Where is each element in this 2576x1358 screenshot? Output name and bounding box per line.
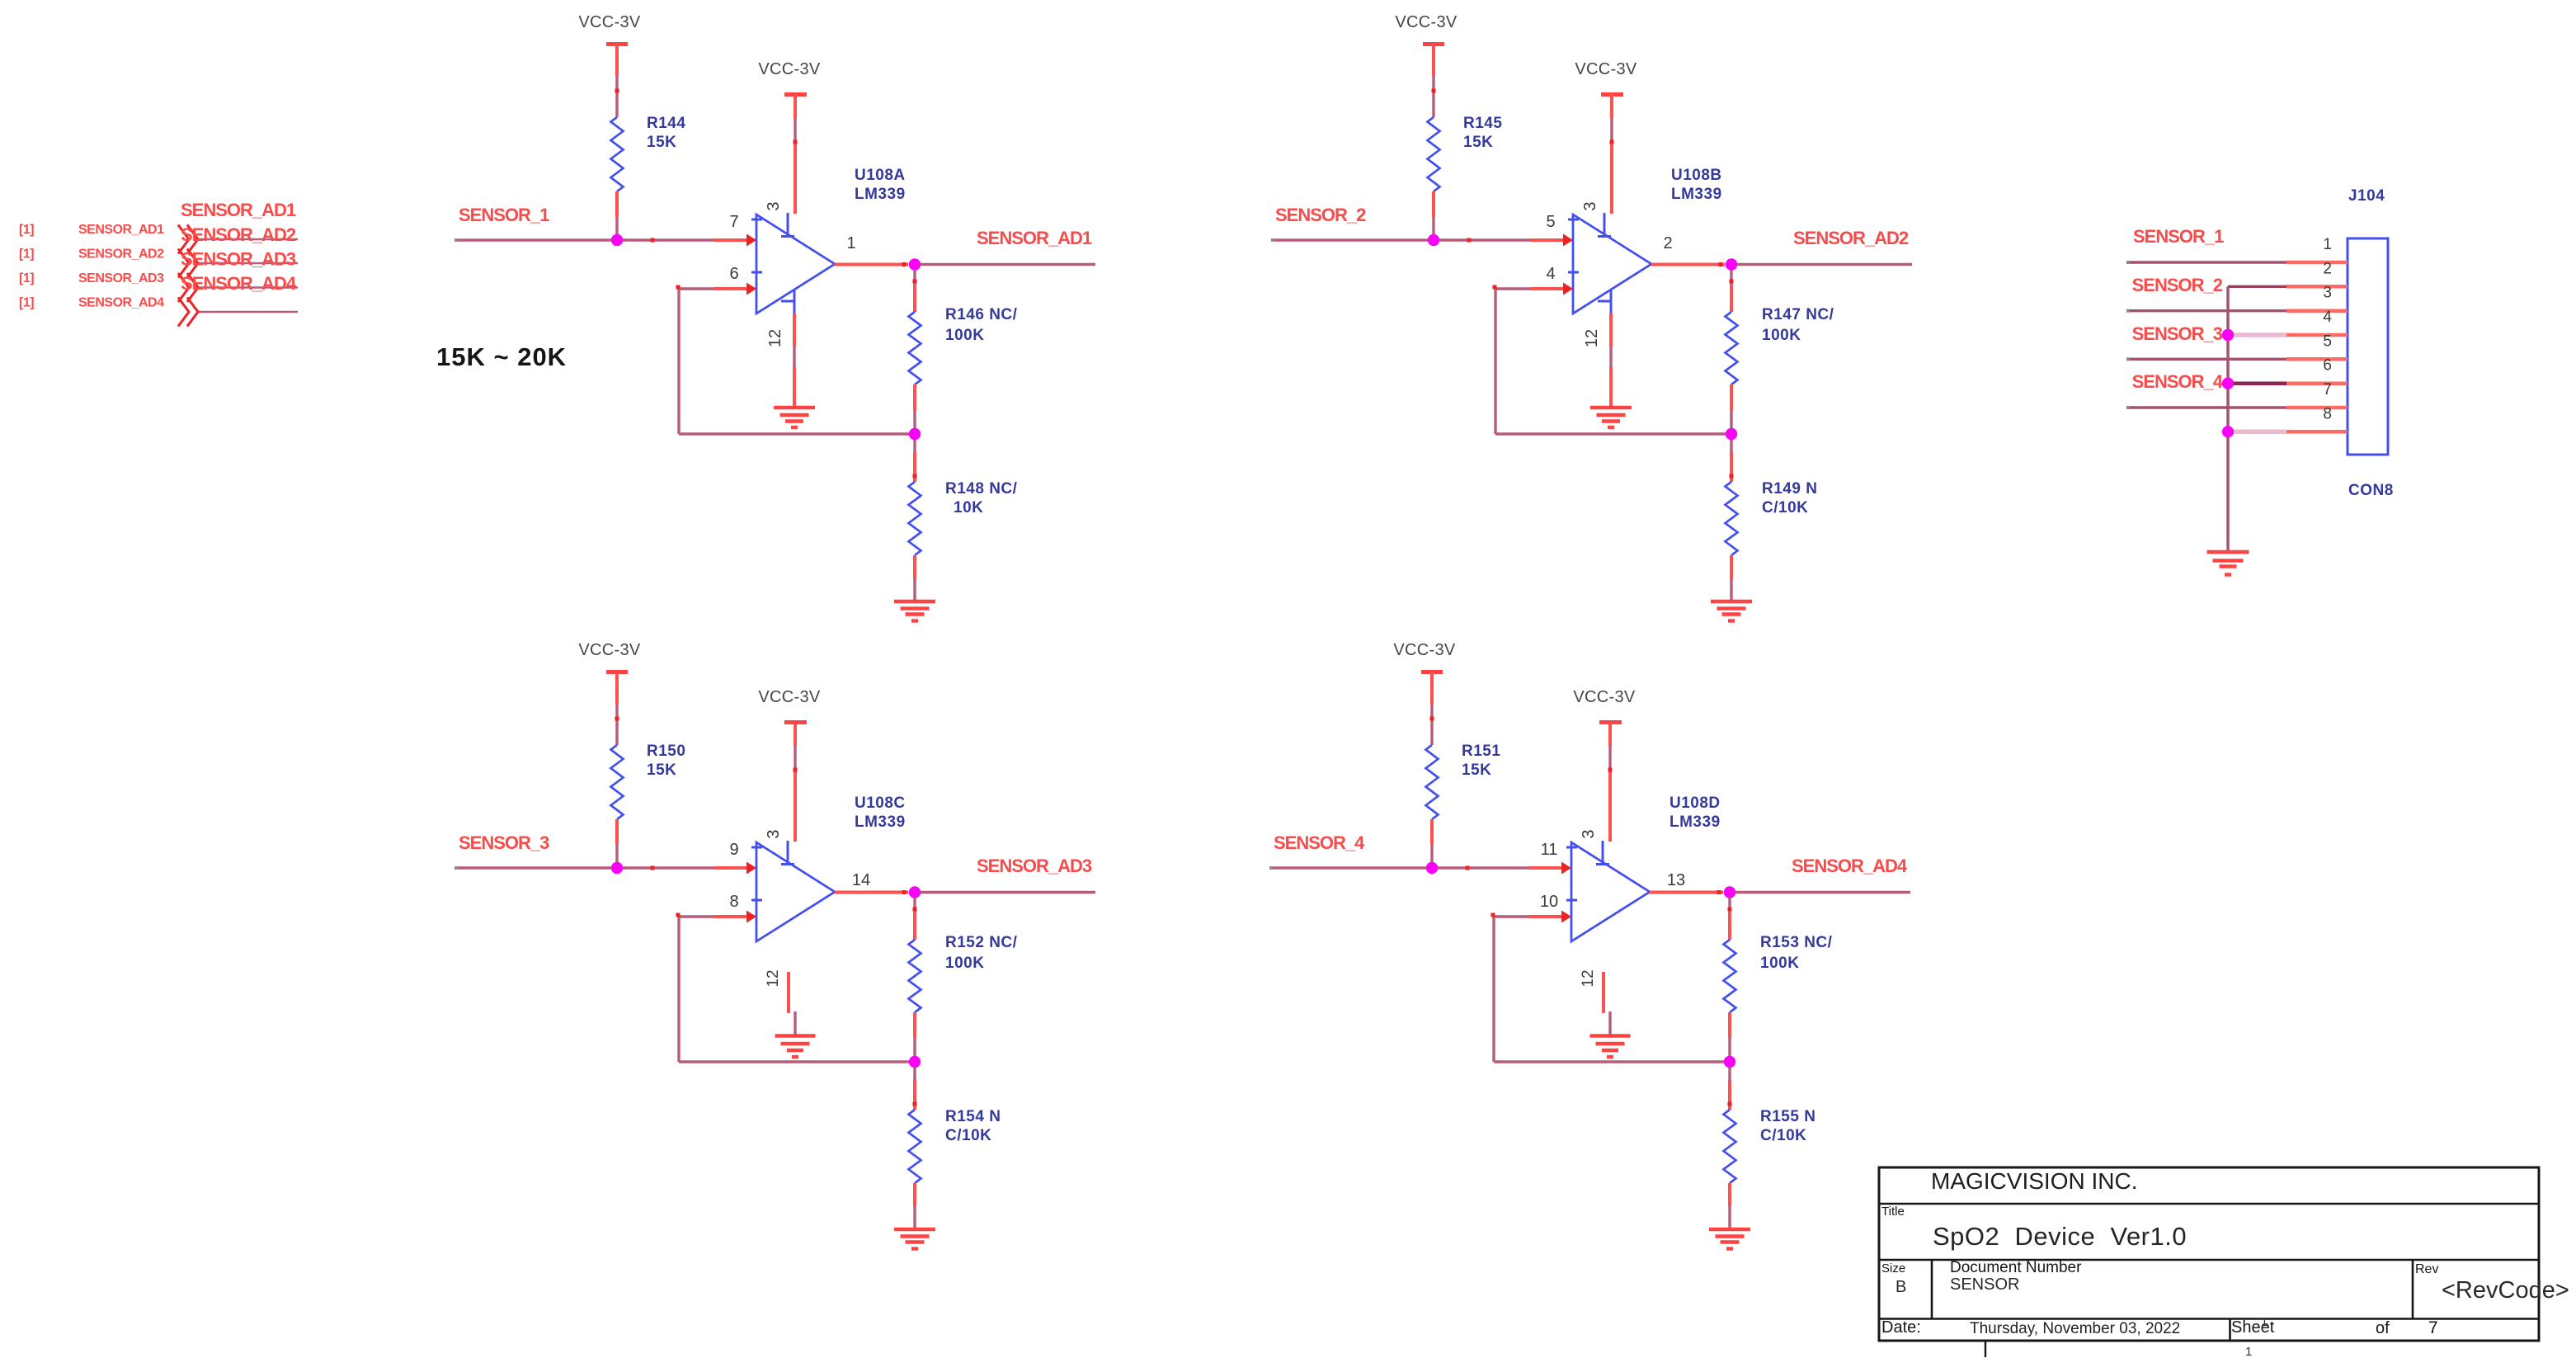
svg-text:VCC-3V: VCC-3V [578, 641, 641, 659]
svg-text:10K: 10K [954, 499, 983, 516]
wire R147 to node [1730, 384, 1733, 410]
wire output to R147 [1730, 270, 1732, 285]
wire output pin 14 [835, 891, 908, 894]
svg-text:100K: 100K [945, 327, 984, 344]
title block frame [1879, 1167, 2539, 1341]
off-page connector chevron 1 [178, 225, 198, 254]
wire node to R148 [913, 440, 916, 452]
node input junction [611, 862, 623, 874]
svg-text:4: 4 [1546, 265, 1555, 283]
ground (pin 12) [775, 1034, 816, 1037]
node feedback junction [909, 428, 921, 440]
resistor R152 [909, 940, 921, 1012]
svg-text:5: 5 [2323, 332, 2332, 350]
sheet number mark [1985, 1341, 1986, 1357]
wire to J104 pin 1 [2128, 261, 2286, 263]
wire output net [921, 891, 1095, 894]
svg-text:15K: 15K [1462, 762, 1491, 779]
wire to J104 pin 7 [2128, 406, 2286, 408]
wire pin 3 to VCC [1608, 723, 1612, 747]
wire R145 to input node [1432, 191, 1435, 217]
svg-text:3: 3 [1580, 829, 1598, 838]
svg-text:SENSOR_3: SENSOR_3 [2132, 323, 2223, 344]
node input junction [1426, 862, 1438, 874]
svg-text:VCC-3V: VCC-3V [1393, 641, 1456, 659]
svg-text:VCC-3V: VCC-3V [578, 13, 641, 31]
svg-text:6: 6 [2323, 357, 2332, 375]
wire feedback [714, 915, 746, 918]
resistor R147 [1726, 312, 1738, 384]
svg-text:R149 N: R149 N [1762, 480, 1817, 497]
pin 3 stub [1602, 841, 1604, 864]
ground (divider) [894, 1228, 935, 1231]
wire output to R146 [913, 270, 916, 285]
svg-text:Thursday, November 03, 2022: Thursday, November 03, 2022 [1970, 1320, 2180, 1337]
node junction pin 4 [2222, 329, 2234, 341]
svg-text:SENSOR_2: SENSOR_2 [1275, 205, 1366, 225]
wire R144 to input node [615, 191, 619, 217]
wire R151 to input node [1430, 819, 1434, 845]
comparator circuit U108A [454, 13, 1095, 621]
svg-text:U108C: U108C [855, 795, 906, 812]
wire output net [921, 263, 1095, 266]
wire output net [1735, 891, 1910, 894]
svg-text:U108D: U108D [1669, 795, 1721, 812]
svg-text:U108A: U108A [855, 167, 906, 184]
svg-text:SENSOR_AD2: SENSOR_AD2 [78, 248, 164, 262]
svg-text:3: 3 [765, 201, 783, 210]
svg-text:R152 NC/: R152 NC/ [945, 934, 1018, 951]
comparator circuit U108B [1271, 13, 1912, 621]
wire to J104 pin 5 [2128, 358, 2286, 361]
svg-text:J104: J104 [2348, 187, 2385, 205]
svg-text:2: 2 [1663, 234, 1672, 252]
off-page connector chevron 2 [178, 249, 198, 278]
svg-text:1: 1 [846, 234, 855, 252]
svg-text:VCC-3V: VCC-3V [1573, 688, 1636, 706]
wire R153 to node [1728, 1012, 1731, 1038]
svg-text:R151: R151 [1462, 743, 1500, 760]
wire pin 3 to VCC [794, 95, 797, 119]
resistor R144 [611, 117, 624, 191]
wire SENSOR_1 input [457, 238, 714, 241]
resistor R145 [1428, 117, 1440, 191]
resistor R154 [909, 1110, 921, 1183]
svg-text:SENSOR_AD1: SENSOR_AD1 [78, 223, 164, 237]
svg-text:SENSOR_AD4: SENSOR_AD4 [78, 296, 164, 310]
svg-text:VCC-3V: VCC-3V [758, 688, 821, 706]
pin 12 stub [1610, 290, 1613, 314]
svg-text:100K: 100K [1760, 955, 1799, 972]
svg-text:12: 12 [1580, 969, 1597, 987]
svg-text:[1]: [1] [19, 271, 34, 285]
svg-text:Rev: Rev [2415, 1262, 2438, 1276]
svg-text:U108B: U108B [1671, 167, 1722, 184]
ground (pin 12) [1590, 1034, 1631, 1037]
svg-text:15K ~ 20K: 15K ~ 20K [436, 342, 567, 371]
svg-text:7: 7 [2428, 1318, 2438, 1337]
wire R155 to ground [1728, 1183, 1731, 1206]
wire pin 12 to ground [1608, 1011, 1611, 1036]
svg-text:SENSOR_AD1: SENSOR_AD1 [977, 228, 1092, 248]
op-amp U108D LM339 [1571, 842, 1650, 941]
wire SENSOR_2 to J104 pin 2 [2228, 285, 2286, 288]
svg-text:B: B [1896, 1278, 1906, 1296]
svg-text:R153 NC/: R153 NC/ [1760, 934, 1833, 951]
wire R146 to node [913, 384, 916, 410]
svg-text:C/10K: C/10K [945, 1127, 991, 1144]
wire ground bus (J104) [2226, 286, 2229, 550]
wire pin 12 to ground [1609, 314, 1613, 347]
svg-text:<RevCode>: <RevCode> [2442, 1277, 2569, 1304]
wire pin 3 to VCC [1610, 95, 1613, 119]
pin 3 stub [787, 841, 789, 864]
svg-text:R148 NC/: R148 NC/ [945, 480, 1018, 497]
svg-text:Sheet: Sheet [2231, 1318, 2275, 1337]
svg-text:R147 NC/: R147 NC/ [1762, 306, 1834, 323]
wire output to R152 [913, 898, 916, 912]
svg-text:CON8: CON8 [2348, 482, 2394, 499]
node junction pin 6 [2222, 378, 2234, 389]
resistor R153 [1724, 940, 1736, 1012]
svg-text:R146 NC/: R146 NC/ [945, 306, 1018, 323]
wire VCC to R150 [615, 672, 619, 705]
svg-text:12: 12 [765, 969, 782, 987]
pin 3 stub [787, 213, 789, 236]
wire to J104 pin 3 [2128, 309, 2286, 312]
ground (pin 12) [774, 406, 815, 409]
off-page connector chevron 4 [178, 298, 198, 327]
wire SENSOR_2 input [1274, 238, 1531, 241]
wire output pin 13 [1650, 891, 1723, 894]
svg-text:Size: Size [1881, 1261, 1905, 1275]
wire VCC to R145 [1432, 45, 1435, 77]
svg-text:Title: Title [1881, 1205, 1905, 1219]
wire SENSOR_AD4 off-page [197, 311, 298, 314]
wire pin 12 to ground [793, 314, 796, 347]
node feedback junction [1724, 1056, 1735, 1068]
node output junction [909, 886, 921, 898]
svg-text:12: 12 [1583, 329, 1601, 347]
svg-text:[1]: [1] [19, 248, 34, 262]
resistor R155 [1724, 1110, 1736, 1183]
svg-text:SENSOR_AD2: SENSOR_AD2 [1793, 228, 1909, 248]
svg-text:3: 3 [2323, 285, 2332, 302]
resistor R149 [1726, 482, 1738, 555]
svg-text:LM339: LM339 [1671, 186, 1722, 203]
comparator circuit U108C [454, 641, 1095, 1249]
wire feedback [1529, 915, 1561, 918]
svg-text:SENSOR_1: SENSOR_1 [2133, 226, 2224, 247]
node output junction [1726, 258, 1737, 270]
pin 10 (-) arrow [1561, 911, 1571, 923]
svg-text:14: 14 [852, 871, 870, 889]
wire R148 to ground [913, 555, 916, 578]
svg-text:of: of [2376, 1319, 2390, 1337]
svg-text:SENSOR_3: SENSOR_3 [459, 832, 549, 853]
wire pin 12 to ground [794, 1011, 796, 1036]
pin 6 (-) arrow [746, 283, 756, 295]
wire feedback [714, 287, 746, 290]
svg-text:5: 5 [1546, 213, 1555, 231]
svg-text:SENSOR: SENSOR [1950, 1275, 2019, 1294]
node junction pin 8 [2222, 426, 2234, 437]
svg-text:8: 8 [2323, 405, 2332, 422]
svg-text:C/10K: C/10K [1760, 1127, 1806, 1144]
svg-text:VCC-3V: VCC-3V [1575, 60, 1637, 78]
node input junction [611, 234, 623, 246]
wire SENSOR_AD1 off-page [197, 238, 298, 241]
svg-text:VCC-3V: VCC-3V [758, 60, 821, 78]
wire VCC to R144 [615, 45, 619, 77]
svg-text:SENSOR_AD3: SENSOR_AD3 [78, 271, 164, 285]
wire output pin 1 [835, 263, 908, 266]
op-amp U108A LM339 [756, 215, 835, 314]
node output junction [1724, 886, 1735, 898]
wire SENSOR_4 to J104 pin 6 [2230, 381, 2286, 385]
wire VCC to R151 [1430, 672, 1434, 705]
svg-text:LM339: LM339 [1669, 813, 1721, 831]
wire SENSOR_3 input [457, 866, 714, 869]
svg-text:MAGICVISION INC.: MAGICVISION INC. [1931, 1168, 2137, 1194]
ground (pin 12) [1590, 406, 1632, 409]
svg-text:15K: 15K [647, 762, 676, 779]
svg-text:10: 10 [1540, 893, 1558, 911]
svg-text:LM339: LM339 [855, 186, 906, 203]
wire node to R155 [1728, 1068, 1731, 1080]
svg-text:2: 2 [2323, 260, 2332, 277]
svg-text:1: 1 [2245, 1345, 2252, 1358]
svg-text:12: 12 [766, 329, 784, 347]
wire node to R149 [1730, 440, 1732, 452]
svg-text:SENSOR_AD1: SENSOR_AD1 [181, 200, 296, 220]
svg-text:7: 7 [729, 213, 738, 231]
comparator circuit U108D [1269, 641, 1910, 1249]
svg-text:3: 3 [765, 829, 783, 838]
svg-text:Document Number: Document Number [1950, 1259, 2082, 1276]
resistor R150 [611, 745, 624, 819]
wire SENSOR_AD3 off-page [197, 286, 298, 289]
svg-text:7: 7 [2323, 381, 2332, 398]
wire SENSOR_3 to J104 pin 4 [2230, 332, 2286, 337]
wire output net [1737, 263, 1912, 266]
svg-text:1: 1 [2261, 1315, 2268, 1329]
wire SENSOR_AD2 off-page [197, 262, 298, 265]
svg-text:SENSOR_AD2: SENSOR_AD2 [181, 224, 296, 245]
svg-text:R155 N: R155 N [1760, 1108, 1815, 1125]
svg-text:SENSOR_AD3: SENSOR_AD3 [181, 249, 296, 270]
wire R149 to ground [1730, 555, 1733, 578]
svg-text:R144: R144 [647, 115, 685, 132]
svg-text:LM339: LM339 [855, 813, 906, 831]
svg-text:R150: R150 [647, 743, 685, 760]
svg-text:8: 8 [729, 893, 738, 911]
node feedback junction [1726, 428, 1737, 440]
node feedback junction [909, 1056, 921, 1068]
pin 4 (-) arrow [1563, 283, 1573, 295]
svg-text:15K: 15K [647, 134, 676, 151]
svg-text:SENSOR_1: SENSOR_1 [459, 205, 549, 225]
svg-text:Date:: Date: [1881, 1318, 1921, 1337]
ground (J104 bus) [2207, 550, 2249, 554]
svg-text:SENSOR_AD4: SENSOR_AD4 [181, 273, 297, 294]
ground (divider) [1711, 600, 1752, 603]
wire SENSOR_4 input [1272, 866, 1529, 869]
pin 11 (+) arrow [1561, 862, 1571, 875]
ground (divider) [894, 600, 935, 603]
wire node to R154 [913, 1068, 916, 1080]
svg-text:SENSOR_4: SENSOR_4 [1274, 832, 1365, 853]
svg-text:[1]: [1] [19, 223, 34, 237]
svg-text:9: 9 [729, 841, 738, 859]
pin 7 (+) arrow [746, 234, 756, 247]
pin 12 stub [794, 290, 796, 314]
resistor R146 [909, 312, 921, 384]
svg-text:SENSOR_AD4: SENSOR_AD4 [1792, 856, 1908, 876]
op-amp U108C LM339 [756, 842, 835, 941]
wire pin 3 to VCC [794, 723, 797, 747]
wire output pin 2 [1651, 263, 1725, 266]
svg-text:11: 11 [1541, 841, 1558, 859]
svg-text:C/10K: C/10K [1762, 499, 1808, 516]
node input junction [1428, 234, 1439, 246]
wire R152 to node [913, 1012, 916, 1038]
node output junction [909, 258, 921, 270]
svg-text:6: 6 [729, 265, 738, 283]
wire R150 to input node [615, 819, 619, 845]
svg-text:SENSOR_2: SENSOR_2 [2132, 275, 2223, 295]
svg-text:R145: R145 [1463, 115, 1502, 132]
svg-text:3: 3 [1581, 201, 1599, 210]
off-page connector chevron 3 [178, 273, 198, 302]
wire output to R153 [1728, 898, 1731, 912]
svg-text:R154 N: R154 N [945, 1108, 1001, 1125]
svg-text:100K: 100K [1762, 327, 1801, 344]
svg-text:SpO2 Device Ver1.0: SpO2 Device Ver1.0 [1933, 1222, 2187, 1251]
pin 8 (-) arrow [746, 911, 756, 923]
svg-text:VCC-3V: VCC-3V [1395, 13, 1458, 31]
ground (divider) [1709, 1228, 1750, 1231]
svg-text:SENSOR_AD3: SENSOR_AD3 [977, 856, 1092, 876]
wire feedback [1531, 287, 1563, 290]
pin 9 (+) arrow [746, 862, 756, 875]
svg-text:100K: 100K [945, 955, 984, 972]
svg-text:15K: 15K [1463, 134, 1493, 151]
svg-text:13: 13 [1667, 871, 1685, 889]
wire R154 to ground [913, 1183, 916, 1206]
pin 3 stub [1604, 213, 1606, 236]
svg-text:1: 1 [2323, 236, 2332, 253]
pin 5 (+) arrow [1563, 234, 1573, 247]
op-amp U108B LM339 [1573, 215, 1651, 314]
resistor R148 [909, 482, 921, 555]
wire to J104 pin 8 [2230, 430, 2286, 435]
svg-text:4: 4 [2323, 309, 2332, 326]
resistor R151 [1426, 745, 1439, 819]
svg-text:[1]: [1] [19, 296, 34, 310]
svg-text:SENSOR_4: SENSOR_4 [2132, 371, 2224, 392]
